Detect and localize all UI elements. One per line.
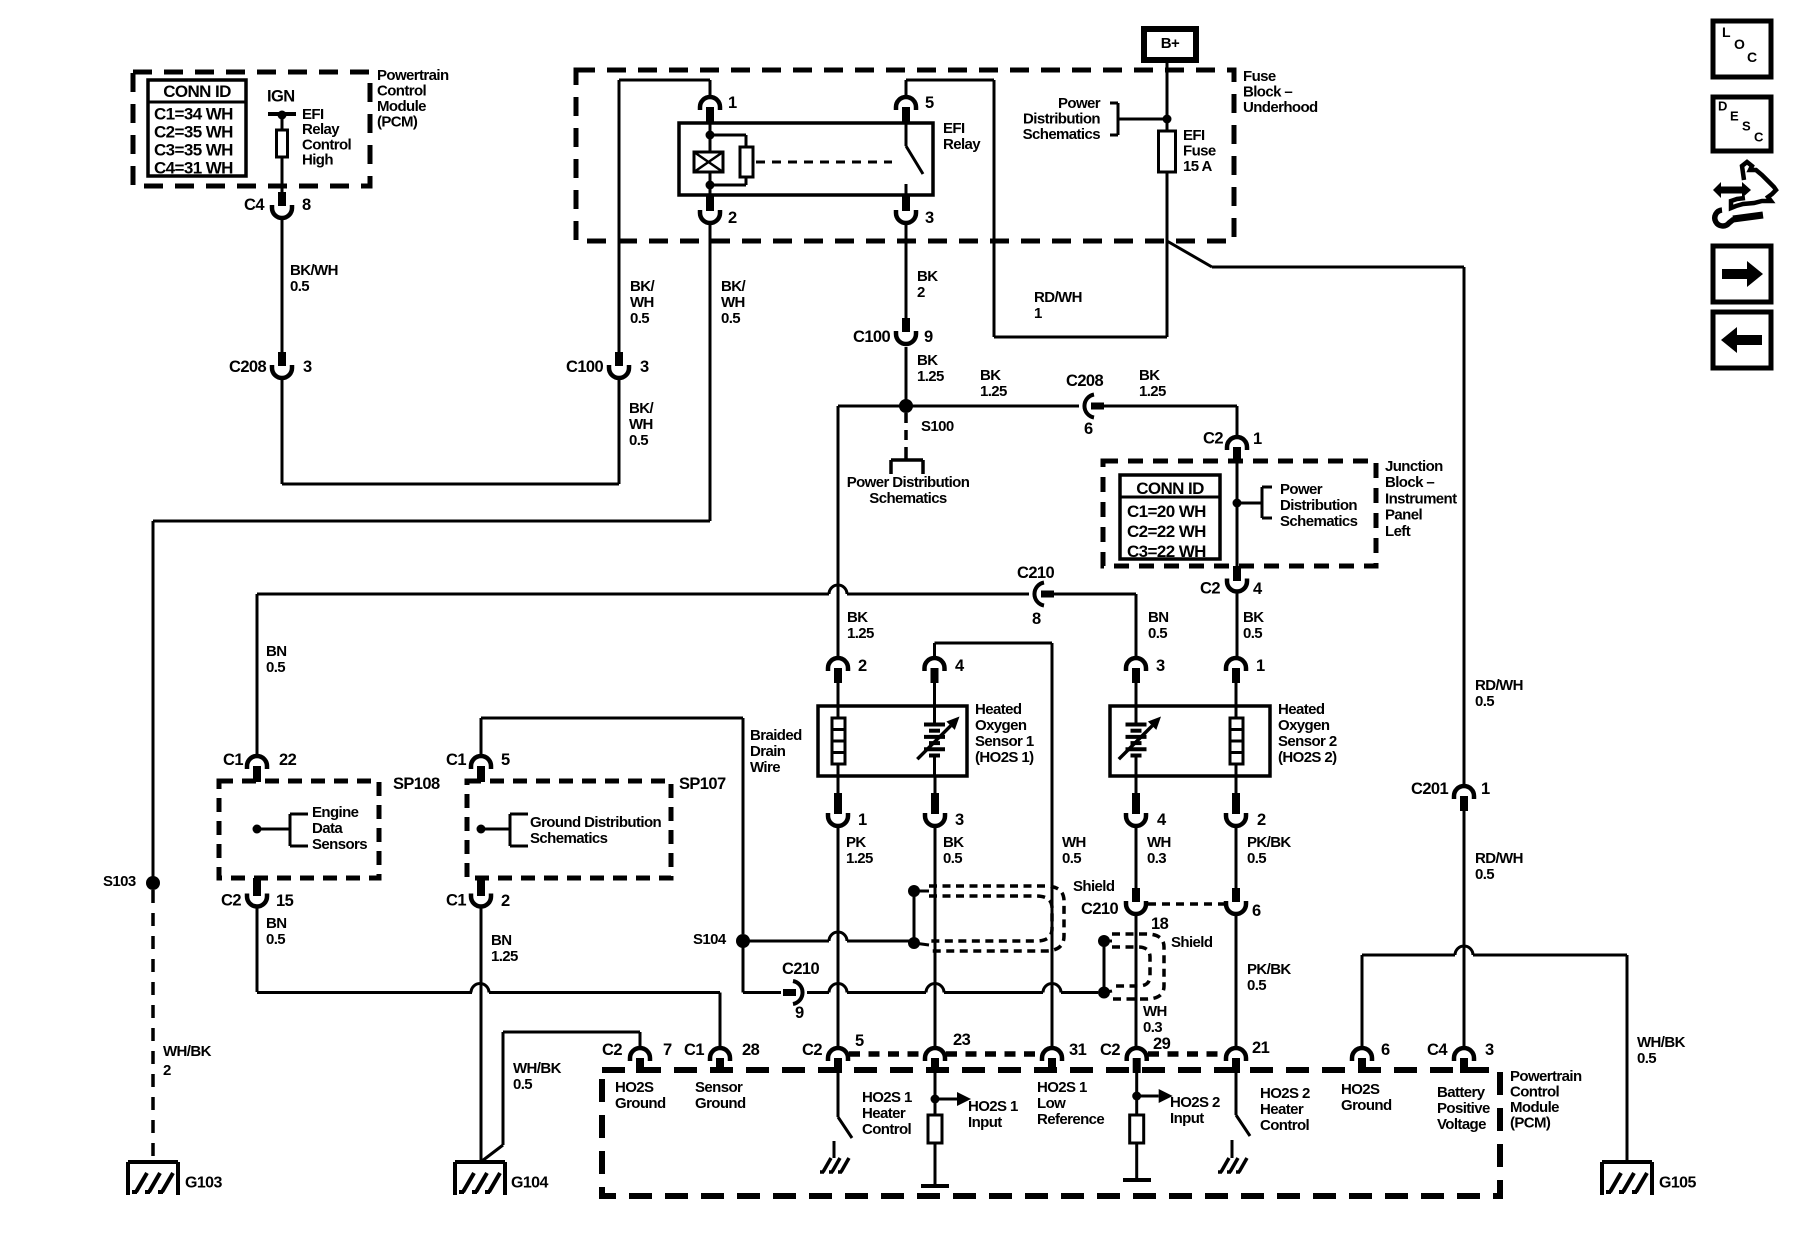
svg-text:Fuse: Fuse (1183, 142, 1216, 159)
svg-text:Reference: Reference (1037, 1111, 1104, 1128)
svg-text:0.5: 0.5 (630, 310, 649, 327)
svg-text:S100: S100 (921, 418, 954, 435)
svg-text:Relay: Relay (943, 136, 981, 153)
svg-text:Engine: Engine (312, 804, 359, 821)
svg-text:28: 28 (742, 1041, 760, 1059)
svg-text:BK/: BK/ (629, 400, 654, 417)
svg-text:C201: C201 (1411, 780, 1448, 798)
svg-text:(PCM): (PCM) (1510, 1114, 1551, 1131)
svg-text:Braided: Braided (750, 727, 802, 744)
svg-text:WH: WH (629, 416, 653, 433)
svg-text:5: 5 (925, 94, 934, 112)
svg-text:1.25: 1.25 (980, 383, 1007, 400)
svg-text:C2: C2 (221, 891, 241, 909)
svg-text:Block –: Block – (1385, 474, 1434, 491)
svg-text:RD/WH: RD/WH (1475, 850, 1523, 867)
svg-text:0.5: 0.5 (1247, 977, 1266, 994)
svg-text:1: 1 (1481, 780, 1490, 798)
svg-text:C4=31 WH: C4=31 WH (154, 159, 233, 178)
svg-text:8: 8 (302, 196, 311, 214)
svg-text:E: E (1730, 108, 1739, 123)
svg-text:G104: G104 (511, 1175, 548, 1192)
svg-text:HO2S 2: HO2S 2 (1170, 1094, 1220, 1111)
svg-text:C4: C4 (244, 196, 265, 214)
svg-text:Heated: Heated (975, 701, 1022, 718)
svg-text:1: 1 (1256, 657, 1265, 675)
svg-text:S: S (1742, 118, 1751, 133)
svg-text:7: 7 (663, 1041, 672, 1059)
svg-text:BK/: BK/ (630, 278, 655, 295)
svg-text:BK: BK (847, 609, 868, 626)
svg-text:Input: Input (1170, 1110, 1204, 1127)
svg-text:(HO2S 1): (HO2S 1) (975, 749, 1034, 766)
svg-text:0.5: 0.5 (513, 1076, 532, 1093)
svg-text:4: 4 (955, 657, 965, 675)
svg-text:PK: PK (846, 834, 866, 851)
svg-text:SP107: SP107 (679, 775, 726, 793)
svg-text:WH: WH (1147, 834, 1171, 851)
svg-text:Schematics: Schematics (530, 830, 608, 847)
svg-text:8: 8 (1032, 610, 1041, 628)
svg-text:D: D (1718, 98, 1727, 113)
svg-text:Oxygen: Oxygen (975, 717, 1027, 734)
svg-text:C2: C2 (1200, 579, 1220, 597)
svg-text:Power Distribution: Power Distribution (847, 474, 970, 491)
svg-text:0.5: 0.5 (266, 659, 285, 676)
svg-text:C1: C1 (684, 1041, 704, 1059)
svg-text:Ground: Ground (1341, 1097, 1392, 1114)
svg-text:0.3: 0.3 (1143, 1019, 1162, 1036)
svg-text:2: 2 (728, 209, 737, 227)
svg-text:Low: Low (1037, 1095, 1066, 1112)
svg-text:1.25: 1.25 (491, 948, 518, 965)
svg-text:Control: Control (862, 1121, 912, 1138)
svg-text:Wire: Wire (750, 759, 780, 776)
svg-text:HO2S: HO2S (615, 1079, 654, 1096)
svg-text:S104: S104 (693, 931, 727, 948)
svg-text:0.5: 0.5 (1475, 693, 1494, 710)
svg-text:3: 3 (925, 209, 934, 227)
svg-text:Positive: Positive (1437, 1100, 1490, 1117)
svg-text:L: L (1722, 24, 1731, 40)
svg-text:0.5: 0.5 (1247, 850, 1266, 867)
svg-text:Shield: Shield (1073, 878, 1115, 895)
svg-text:High: High (302, 152, 333, 169)
svg-text:Power: Power (1280, 481, 1323, 498)
svg-text:1: 1 (858, 811, 867, 829)
svg-text:C1: C1 (446, 891, 466, 909)
svg-text:6: 6 (1381, 1041, 1390, 1059)
svg-text:C2=22 WH: C2=22 WH (1127, 522, 1206, 541)
svg-text:Control: Control (1510, 1083, 1560, 1100)
svg-text:C2: C2 (802, 1041, 822, 1059)
svg-text:Sensor 1: Sensor 1 (975, 733, 1034, 750)
svg-text:Module: Module (1510, 1099, 1559, 1116)
svg-text:Sensor: Sensor (695, 1079, 743, 1096)
svg-text:(PCM): (PCM) (377, 113, 418, 130)
svg-text:Panel: Panel (1385, 507, 1422, 524)
svg-text:C208: C208 (1066, 372, 1103, 390)
svg-text:WH: WH (1143, 1003, 1167, 1020)
svg-text:6: 6 (1252, 902, 1261, 920)
svg-text:BN: BN (1148, 609, 1168, 626)
svg-text:C4: C4 (1427, 1041, 1448, 1059)
svg-text:WH: WH (1062, 834, 1086, 851)
svg-text:9: 9 (924, 328, 933, 346)
svg-text:C100: C100 (566, 358, 603, 376)
svg-text:C210: C210 (782, 960, 819, 978)
svg-text:C2: C2 (1203, 429, 1223, 447)
svg-text:RD/WH: RD/WH (1034, 289, 1082, 306)
svg-text:1.25: 1.25 (847, 625, 874, 642)
svg-text:BK: BK (917, 352, 938, 369)
svg-text:PK/BK: PK/BK (1247, 961, 1291, 978)
svg-text:Schematics: Schematics (1280, 513, 1358, 530)
svg-text:2: 2 (163, 1062, 171, 1079)
svg-text:SP108: SP108 (393, 775, 440, 793)
svg-text:C: C (1747, 49, 1757, 65)
svg-text:21: 21 (1252, 1039, 1270, 1057)
svg-text:BN: BN (266, 915, 286, 932)
svg-text:Input: Input (968, 1114, 1002, 1131)
svg-text:0.5: 0.5 (266, 931, 285, 948)
svg-text:Left: Left (1385, 523, 1411, 540)
svg-text:2: 2 (917, 284, 925, 301)
svg-text:2: 2 (858, 657, 867, 675)
svg-text:Instrument: Instrument (1385, 490, 1457, 507)
svg-text:Junction: Junction (1385, 458, 1443, 475)
svg-text:Control: Control (377, 82, 427, 99)
svg-text:15 A: 15 A (1183, 158, 1212, 175)
svg-text:3: 3 (640, 358, 649, 376)
svg-text:1.25: 1.25 (846, 850, 873, 867)
svg-text:Schematics: Schematics (869, 490, 947, 507)
svg-text:C1=20 WH: C1=20 WH (1127, 502, 1206, 521)
svg-text:23: 23 (953, 1031, 971, 1049)
svg-text:0.5: 0.5 (1148, 625, 1167, 642)
svg-text:0.5: 0.5 (1062, 850, 1081, 867)
svg-text:0.3: 0.3 (1147, 850, 1166, 867)
svg-text:Ground: Ground (695, 1095, 746, 1112)
svg-text:S103: S103 (103, 873, 136, 890)
svg-text:0.5: 0.5 (1243, 625, 1262, 642)
svg-text:Drain: Drain (750, 743, 786, 760)
svg-text:3: 3 (955, 811, 964, 829)
svg-text:C208: C208 (229, 358, 266, 376)
svg-text:Ground: Ground (615, 1095, 666, 1112)
svg-text:PK/BK: PK/BK (1247, 834, 1291, 851)
svg-text:B+: B+ (1161, 35, 1180, 52)
svg-text:1.25: 1.25 (917, 368, 944, 385)
svg-text:WH/BK: WH/BK (163, 1043, 212, 1060)
svg-text:6: 6 (1084, 420, 1093, 438)
svg-text:3: 3 (1485, 1041, 1494, 1059)
svg-text:BN: BN (491, 932, 511, 949)
svg-text:Distribution: Distribution (1023, 110, 1100, 127)
svg-text:Heater: Heater (1260, 1101, 1304, 1118)
svg-text:C1: C1 (223, 751, 243, 769)
svg-text:3: 3 (303, 358, 312, 376)
svg-text:1: 1 (728, 94, 737, 112)
svg-text:2: 2 (501, 892, 510, 910)
svg-text:RD/WH: RD/WH (1475, 677, 1523, 694)
svg-text:5: 5 (501, 751, 510, 769)
svg-text:Ground Distribution: Ground Distribution (530, 814, 662, 831)
svg-text:C1: C1 (446, 751, 466, 769)
svg-text:Battery: Battery (1437, 1084, 1486, 1101)
svg-text:4: 4 (1157, 811, 1167, 829)
svg-text:BK: BK (1139, 367, 1160, 384)
svg-text:Power: Power (1058, 95, 1101, 112)
svg-text:(HO2S 2): (HO2S 2) (1278, 749, 1337, 766)
svg-text:BK: BK (917, 268, 938, 285)
svg-text:0.5: 0.5 (721, 310, 740, 327)
svg-text:C100: C100 (853, 328, 890, 346)
svg-text:Oxygen: Oxygen (1278, 717, 1330, 734)
svg-text:Data: Data (312, 820, 343, 837)
svg-text:29: 29 (1153, 1035, 1171, 1053)
svg-text:C3=22 WH: C3=22 WH (1127, 542, 1206, 561)
svg-text:C210: C210 (1017, 564, 1054, 582)
svg-text:4: 4 (1253, 580, 1263, 598)
svg-text:IGN: IGN (267, 87, 295, 105)
svg-text:C1=34 WH: C1=34 WH (154, 105, 233, 124)
svg-text:Module: Module (377, 98, 426, 115)
svg-text:Heated: Heated (1278, 701, 1325, 718)
svg-text:WH/BK: WH/BK (513, 1060, 562, 1077)
svg-text:3: 3 (1156, 657, 1165, 675)
svg-text:15: 15 (276, 892, 294, 910)
svg-text:Underhood: Underhood (1243, 99, 1318, 116)
svg-text:Sensors: Sensors (312, 836, 367, 853)
svg-text:C2=35 WH: C2=35 WH (154, 123, 233, 142)
svg-text:HO2S 1: HO2S 1 (862, 1089, 912, 1106)
svg-text:C: C (1754, 129, 1764, 144)
svg-text:1: 1 (1253, 430, 1262, 448)
svg-text:C3=35 WH: C3=35 WH (154, 141, 233, 160)
svg-text:G105: G105 (1659, 1175, 1696, 1192)
svg-text:WH: WH (721, 294, 745, 311)
svg-text:Voltage: Voltage (1437, 1116, 1486, 1133)
svg-text:HO2S 1: HO2S 1 (1037, 1079, 1087, 1096)
svg-text:C2: C2 (1100, 1041, 1120, 1059)
svg-text:2: 2 (1257, 811, 1266, 829)
svg-text:CONN ID: CONN ID (163, 82, 231, 101)
svg-text:CONN ID: CONN ID (1136, 479, 1204, 498)
svg-text:BK/: BK/ (721, 278, 746, 295)
svg-text:Schematics: Schematics (1023, 126, 1101, 143)
svg-text:C2: C2 (602, 1041, 622, 1059)
svg-text:Distribution: Distribution (1280, 497, 1357, 514)
svg-text:Powertrain: Powertrain (377, 67, 449, 84)
svg-text:Control: Control (1260, 1117, 1310, 1134)
svg-text:0.5: 0.5 (943, 850, 962, 867)
svg-text:Powertrain: Powertrain (1510, 1068, 1582, 1085)
svg-text:0.5: 0.5 (1475, 866, 1494, 883)
svg-text:BK: BK (943, 834, 964, 851)
svg-text:C210: C210 (1081, 900, 1118, 918)
svg-text:1.25: 1.25 (1139, 383, 1166, 400)
svg-text:WH: WH (630, 294, 654, 311)
svg-text:0.5: 0.5 (629, 432, 648, 449)
svg-text:31: 31 (1069, 1041, 1087, 1059)
svg-text:0.5: 0.5 (1637, 1050, 1656, 1067)
svg-text:Fuse: Fuse (1243, 68, 1276, 85)
svg-text:1: 1 (1034, 305, 1042, 322)
svg-text:Heater: Heater (862, 1105, 906, 1122)
svg-text:BK/WH: BK/WH (290, 262, 338, 279)
svg-text:BK: BK (980, 367, 1001, 384)
svg-text:HO2S 1: HO2S 1 (968, 1098, 1018, 1115)
svg-text:22: 22 (279, 751, 297, 769)
svg-text:18: 18 (1151, 915, 1169, 933)
svg-text:5: 5 (855, 1032, 864, 1050)
svg-text:G103: G103 (185, 1175, 222, 1192)
svg-text:HO2S 2: HO2S 2 (1260, 1085, 1310, 1102)
svg-text:Shield: Shield (1171, 934, 1213, 951)
svg-text:EFI: EFI (943, 120, 965, 137)
svg-text:9: 9 (795, 1004, 804, 1022)
svg-text:WH/BK: WH/BK (1637, 1034, 1686, 1051)
svg-text:O: O (1734, 36, 1745, 52)
svg-text:BK: BK (1243, 609, 1264, 626)
svg-text:BN: BN (266, 643, 286, 660)
svg-text:0.5: 0.5 (290, 278, 309, 295)
svg-text:HO2S: HO2S (1341, 1081, 1380, 1098)
svg-text:Block –: Block – (1243, 83, 1292, 100)
svg-text:EFI: EFI (1183, 127, 1205, 144)
svg-text:Sensor 2: Sensor 2 (1278, 733, 1337, 750)
